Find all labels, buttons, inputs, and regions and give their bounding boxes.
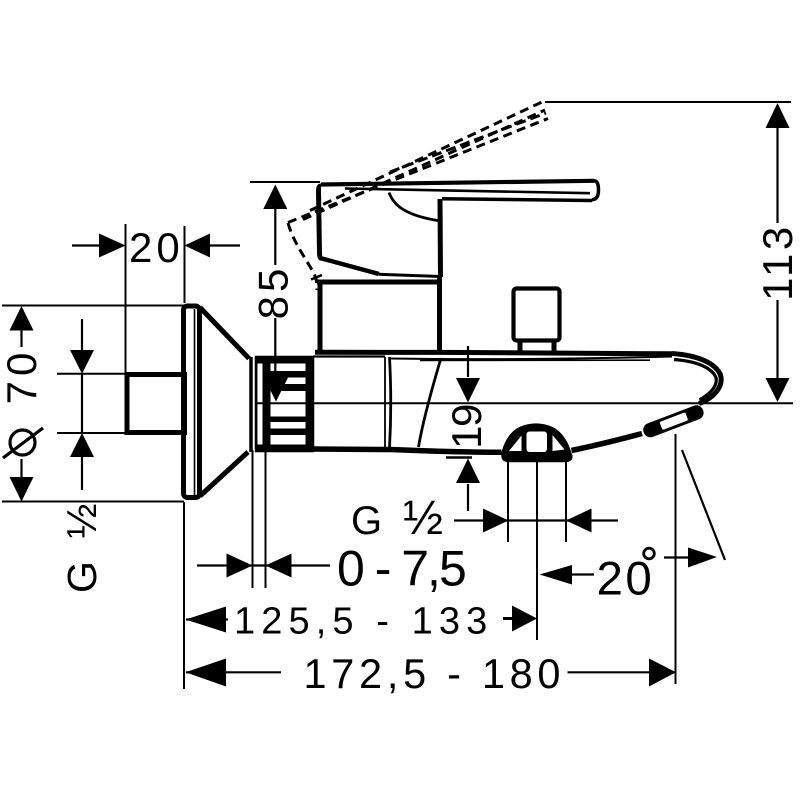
arrow 0-7.5 left-pointing <box>266 554 292 578</box>
svg-text:20: 20 <box>129 224 184 271</box>
degree circle of 20deg <box>644 548 655 559</box>
arrow 113 down <box>766 378 790 402</box>
arrow 85 up <box>263 185 287 210</box>
arrow 20 left <box>99 234 126 258</box>
handle head bottom slant <box>320 258 379 274</box>
extension line dia70 bottom <box>2 501 184 503</box>
extension line handle top left (85 dim) <box>250 181 320 183</box>
spout second contour line <box>390 357 672 360</box>
diameter symbol circle <box>10 430 35 455</box>
head right edge down <box>438 199 444 277</box>
thread block bottom band <box>256 445 313 452</box>
joint small tick left <box>311 275 322 280</box>
arrow dia70 down <box>10 477 34 502</box>
extension line spout tip x=675.5 <box>675 434 677 684</box>
diameter symbol slash <box>3 428 43 458</box>
dome left window <box>509 436 522 452</box>
aerator nozzle body <box>641 403 705 439</box>
dimension 172.5-180 line left <box>186 671 281 673</box>
svg-text:G: G <box>59 561 105 593</box>
extension line 20dim left x=125 <box>125 224 127 372</box>
arrow G1/2-left up (outside bottom) <box>70 433 94 457</box>
dimension 20 line left tail <box>72 244 100 246</box>
reference line nipple bottom G1/2 <box>57 432 127 434</box>
arrow 20 right <box>185 234 211 258</box>
svg-text:70: 70 <box>0 348 45 405</box>
arrow G1/2-mid left-pointing <box>566 509 592 533</box>
thread stripe 3 <box>270 417 306 423</box>
svg-text:½: ½ <box>58 503 105 538</box>
thread block outline <box>256 357 313 451</box>
dome center window <box>527 432 548 453</box>
svg-text:113: 113 <box>754 223 800 301</box>
spout underside left of dome <box>311 449 502 452</box>
spout front sweep curve <box>419 358 442 447</box>
extension line 0-7.5 left x=252.5 <box>252 450 254 588</box>
housing right double line a <box>384 357 386 448</box>
reference line nipple top G1/2 <box>57 373 127 375</box>
thread stripe 1 <box>270 371 306 378</box>
svg-text:20: 20 <box>597 553 655 606</box>
dashed raised lever middle edge <box>303 110 545 220</box>
lever right end cap <box>592 181 599 200</box>
dashed raised lever top edge <box>310 102 543 211</box>
dimension 20 line right tail <box>209 244 240 246</box>
shower hose connection dome <box>501 423 572 462</box>
dimension dia70 line <box>20 330 22 477</box>
escutcheon cone bottom slant <box>200 452 248 496</box>
arrow 125.5-133 right <box>512 606 537 632</box>
cone neck second line <box>256 358 258 451</box>
escutcheon cone top slant <box>200 308 249 359</box>
20 degree slant line <box>682 450 725 560</box>
body right edge <box>437 277 442 352</box>
body bottom / spout top edge <box>315 352 672 354</box>
arrow 0-7.5 right-pointing <box>227 554 253 578</box>
arrow 172.5-180 left <box>186 659 227 687</box>
dimension 19 line <box>467 346 469 511</box>
arrow G1/2-mid right-pointing <box>483 509 509 533</box>
thread block top band <box>256 357 313 364</box>
thread stripe 4 <box>270 429 306 436</box>
svg-text:125,5 - 133: 125,5 - 133 <box>234 601 493 643</box>
svg-text:G: G <box>351 499 382 543</box>
lever inner line <box>345 189 590 194</box>
dimension 125.5-133 line right bit <box>503 617 513 620</box>
arrow 19 down <box>456 378 480 403</box>
dimension G1/2 mid line <box>454 519 618 521</box>
svg-text:½: ½ <box>403 492 443 545</box>
thread stripe 2 <box>270 384 306 391</box>
arrow 20deg left-pointing <box>540 565 573 585</box>
knob foot right <box>552 341 557 352</box>
dashed raised lever inner lower edge <box>390 113 546 172</box>
spout underside right of dome <box>572 434 643 451</box>
check valve housing top <box>313 355 385 357</box>
housing bottom left corner tick <box>310 445 313 452</box>
arrow 85 down <box>264 378 288 402</box>
dome right window <box>553 435 565 451</box>
housing right double line b (bowed) <box>390 357 391 448</box>
dimension 85 line <box>274 208 276 378</box>
body top joint line <box>317 280 442 285</box>
arrow dia70 up <box>10 306 34 331</box>
handle head bottom line to right <box>379 274 441 276</box>
extension line shower outlet left x=508 <box>507 459 509 542</box>
dimension 20deg leader right <box>664 556 690 558</box>
arrow 172.5-180 right <box>649 659 676 687</box>
lever blade bottom edge <box>442 199 592 201</box>
extension line dia70 top <box>2 305 184 307</box>
arrow G1/2-left down (outside top) <box>70 350 94 374</box>
extension line 0-7.5 right x=265.5 <box>265 448 267 588</box>
dashed hub swing arc <box>288 223 317 290</box>
arrow 125.5-133 left <box>186 607 227 633</box>
handle head left edge <box>319 186 322 259</box>
spout nose inner thin curve <box>674 360 716 400</box>
wall plate (escutcheon flange) <box>184 306 200 498</box>
extension line top (raised handle tip to 113 dim) <box>545 101 791 103</box>
knob foot left <box>518 341 523 352</box>
diverter knob <box>514 289 560 341</box>
svg-text:172,5 - 180: 172,5 - 180 <box>304 650 566 697</box>
extension line shower outlet right x=566 <box>565 456 567 542</box>
thread block left column <box>263 357 271 451</box>
dimension 20deg leader left <box>568 573 594 575</box>
inlet nipple (G1/2 thread stub) <box>127 375 185 433</box>
body left edge <box>318 284 323 352</box>
dashed raised lever bottom edge <box>288 119 548 223</box>
spout lower contour thin line <box>420 359 650 361</box>
svg-text:19: 19 <box>443 405 490 449</box>
axis / bottom reference line y=403 <box>256 402 793 404</box>
extension line wall plate x=184 long <box>183 502 185 689</box>
dimension G1/2 left line <box>81 319 83 490</box>
svg-text:85: 85 <box>250 265 297 320</box>
lever (handle) top edge <box>321 181 594 185</box>
19 dim reference tick at hose plane <box>446 456 472 459</box>
dimension 0-7.5 line <box>197 564 330 566</box>
arrow 19 up <box>456 459 480 484</box>
dimension 125.5-133 line left bit <box>186 618 228 620</box>
extension line shower outlet center x=537 <box>536 462 538 640</box>
arrow 113 up <box>766 103 790 128</box>
cone neck vertical <box>249 357 253 452</box>
aerator slot window <box>659 412 688 430</box>
wall plate inner line <box>194 309 196 495</box>
dimension 113 line <box>776 128 778 378</box>
thread block right column <box>306 357 314 451</box>
dimension 172.5-180 line right <box>568 671 653 673</box>
svg-text:0 - 7,5: 0 - 7,5 <box>337 541 465 597</box>
arrow 20deg right-pointing <box>688 548 717 568</box>
extension line 20dim right x=184 <box>184 226 186 303</box>
lever scoop curve <box>389 193 439 221</box>
spout nose outer curve <box>672 354 721 404</box>
